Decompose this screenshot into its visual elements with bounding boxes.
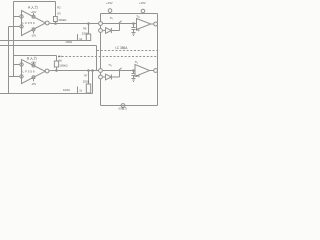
svg-text:R2: R2 xyxy=(57,6,61,10)
wire U2 output line xyxy=(49,70,99,73)
terminal +15V T1 xyxy=(108,9,112,13)
buffer amp B1 xyxy=(137,19,151,30)
node junction R6/output xyxy=(88,23,90,25)
svg-text:R4: R4 xyxy=(58,55,62,59)
svg-text:LF356: LF356 xyxy=(23,21,36,25)
buffer amp B2 xyxy=(135,65,150,77)
wire between balls lower xyxy=(100,72,102,75)
wire feedback top edge op-amp U2 xyxy=(14,55,57,57)
relay contact ball K2b xyxy=(99,75,103,79)
svg-text:10μ: 10μ xyxy=(136,29,141,32)
wire rail C y94 xyxy=(0,93,93,95)
svg-text:+15V: +15V xyxy=(31,61,37,64)
op-amp U2 V+ pin xyxy=(32,64,35,67)
arrow wiper top xyxy=(77,34,79,39)
wire rail B y45.5 xyxy=(0,45,97,47)
svg-text:(P): (P) xyxy=(57,11,61,15)
op-amp U1 V- pin xyxy=(32,28,35,31)
wire rail A y41 xyxy=(0,40,91,42)
resistor R2 100k (feedback U1) xyxy=(55,2,57,17)
svg-text:100kΩ: 100kΩ xyxy=(58,18,66,22)
wire U1 inverting input stub xyxy=(14,16,20,18)
relay contact ball K2a xyxy=(99,69,103,73)
op-amp U1 LF356 xyxy=(22,11,46,36)
wire down to bottom rail xyxy=(100,79,102,106)
node junction x92.5 xyxy=(92,70,94,72)
terminal OUT2 xyxy=(154,69,158,73)
dashed boundary lower xyxy=(58,56,157,58)
svg-text:100Ω: 100Ω xyxy=(65,40,72,44)
node junction R7/output xyxy=(88,70,90,72)
wire between balls xyxy=(100,25,102,28)
wire diode up link lower xyxy=(119,71,121,78)
wire vertical x96.5 xyxy=(96,46,98,71)
svg-text:100kΩ: 100kΩ xyxy=(59,63,67,67)
node cap C2 junction xyxy=(133,70,135,72)
wire U1 output line xyxy=(49,22,99,25)
wire rail down to node chain xyxy=(100,14,102,22)
wire left vertical bus xyxy=(13,2,15,77)
op-amp U2 LF356 xyxy=(22,60,46,84)
svg-text:100Ω: 100Ω xyxy=(63,88,70,92)
resistor R6 vertical xyxy=(88,24,90,35)
op-amp U2 V- pin xyxy=(32,76,35,79)
svg-text:10μ: 10μ xyxy=(136,75,141,78)
svg-text:220Ω: 220Ω xyxy=(83,80,89,84)
wire feedback top edge op-amp U1 xyxy=(14,1,56,3)
diode D2 xyxy=(102,76,105,78)
terminal OUT1 xyxy=(154,22,158,26)
terminal 0V xyxy=(121,104,125,108)
wire left input bus vertical xyxy=(8,27,10,94)
ground C2 xyxy=(132,78,136,80)
node cap C1 junction xyxy=(133,23,135,25)
wire vertical x92.5 xyxy=(92,71,94,94)
svg-text:-15V: -15V xyxy=(31,35,36,38)
wire bottom contact line with switch S2 xyxy=(102,70,135,72)
relay contact ball K1b xyxy=(99,29,103,33)
svg-text:Tr₃: Tr₃ xyxy=(136,14,140,18)
wire diode up link xyxy=(119,24,121,31)
svg-text:-15V: -15V xyxy=(31,83,36,86)
node junction R2/output xyxy=(55,23,57,25)
svg-text:Tr₂: Tr₂ xyxy=(108,63,112,67)
capacitor C1 xyxy=(133,24,135,28)
svg-text:R7: R7 xyxy=(84,73,88,77)
wire U2 inverting input stub xyxy=(14,64,20,66)
svg-text:I.C 386A: I.C 386A xyxy=(115,46,128,50)
resistor R4 100k (feedback U2) xyxy=(56,56,58,62)
arrow wiper bottom xyxy=(77,87,79,93)
wire B1 output xyxy=(151,23,154,25)
svg-text:(N): (N) xyxy=(58,58,62,62)
wire node chain down xyxy=(100,32,102,68)
svg-text:Tr₄: Tr₄ xyxy=(135,60,140,64)
svg-text:0V出力: 0V出力 xyxy=(119,107,128,110)
svg-text:220Ω: 220Ω xyxy=(82,31,88,35)
svg-text:+15V: +15V xyxy=(106,1,113,5)
relay contact ball K1a xyxy=(99,22,103,26)
terminal +15V T2 xyxy=(141,9,145,13)
dashed boundary upper xyxy=(97,50,157,52)
svg-text:A入力: A入力 xyxy=(28,5,38,10)
op-amp U1 V+ pin xyxy=(32,15,35,18)
svg-text:LF356: LF356 xyxy=(23,70,36,74)
resistor R7 vertical xyxy=(88,71,90,85)
ground C1 xyxy=(132,32,136,34)
wire +15V top rail xyxy=(101,13,158,15)
svg-text:B入力: B入力 xyxy=(27,55,37,60)
svg-text:+15V: +15V xyxy=(139,1,146,5)
node junction R4/output xyxy=(56,70,58,72)
wire bottom rail xyxy=(101,105,158,107)
svg-text:Tr₁: Tr₁ xyxy=(110,16,114,20)
capacitor C2 xyxy=(133,71,135,74)
diode D1 xyxy=(102,30,105,32)
wire B2 output xyxy=(150,70,154,72)
svg-text:+15V: +15V xyxy=(31,11,37,14)
svg-text:1k: 1k xyxy=(79,89,82,93)
wire top contact line with switch S1 xyxy=(102,23,136,25)
svg-text:R6: R6 xyxy=(83,27,87,31)
wire U1 non-inverting input stub xyxy=(9,26,20,28)
wire U2 non-inverting input stub xyxy=(9,76,20,78)
wire right vertical bus xyxy=(157,14,159,106)
